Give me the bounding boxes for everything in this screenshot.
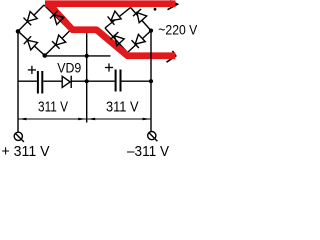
node: right bus / capacitor row junction dot <box>149 79 153 83</box>
node: right bridge right vertex junction dot <box>149 29 153 33</box>
diode VD4 (left bridge, bottom-right) <box>45 31 70 56</box>
left vertical bus (+ rail) <box>17 31 19 132</box>
capacitor C1 plus sign <box>28 66 36 74</box>
capacitor C1 <box>38 71 42 94</box>
middle vertical bus <box>86 33 88 123</box>
wire: right bridge bottom-left side (under red) <box>105 28 128 53</box>
svg-text:+ 311 V: + 311 V <box>2 144 50 160</box>
wire from left bridge bottom vertex to middle bus <box>45 55 111 57</box>
terminal -311 V (circle with slash) <box>148 132 158 142</box>
node: AC stub junction dot on top line <box>154 8 157 11</box>
node: middle bus / capacitor row junction dot <box>85 79 89 83</box>
node: left bridge left vertex junction dot <box>16 29 21 34</box>
dimension arrow right 311 V span <box>87 118 151 121</box>
diode VD1 (left bridge, top-left) <box>18 5 44 31</box>
dimension arrow left 311 V span <box>18 118 87 121</box>
wire C2 to right bus <box>122 80 152 82</box>
svg-text:–311 V: –311 V <box>127 144 169 160</box>
diode VD8 (right bridge, bottom-right) <box>128 31 152 53</box>
svg-text:311 V: 311 V <box>106 99 139 115</box>
wire: red AC line 1 (top) <box>45 0 176 7</box>
diode VD9 <box>62 76 86 88</box>
wire: red AC line 2 (diagonal path) <box>48 3 176 56</box>
capacitor C2 plus sign <box>105 63 113 71</box>
right vertical bus (- rail, crosses red) <box>150 31 152 132</box>
svg-text:~220 V: ~220 V <box>158 23 197 39</box>
node: left bridge bottom vertex junction dot <box>43 53 48 58</box>
svg-text:311 V: 311 V <box>38 99 68 115</box>
diode VD2 (left bridge, top-right, over red) <box>50 11 64 25</box>
wire: capacitor row left <box>18 80 37 82</box>
mains stub hook (bottom, under red) <box>167 51 176 62</box>
capacitor C2 <box>116 70 121 92</box>
wire middle bus to C2 <box>87 80 115 82</box>
wire C1 to VD9 <box>43 80 62 82</box>
diode VD3 (left bridge, bottom-left) <box>18 31 45 55</box>
diode VD7 (right bridge, bottom-left, over red) <box>111 32 125 46</box>
terminal +311 V (circle with slash) <box>14 132 24 142</box>
node: middle bus / AC wire junction dot <box>85 54 89 58</box>
diode VD6 (right bridge, top-right) <box>131 8 152 31</box>
svg-text:VD9: VD9 <box>57 61 81 77</box>
wire: left bridge top-right side (under red) <box>44 5 70 31</box>
mains stub hook (top, under red) <box>168 1 178 10</box>
diode VD5 (right bridge, top-left) <box>105 8 131 29</box>
